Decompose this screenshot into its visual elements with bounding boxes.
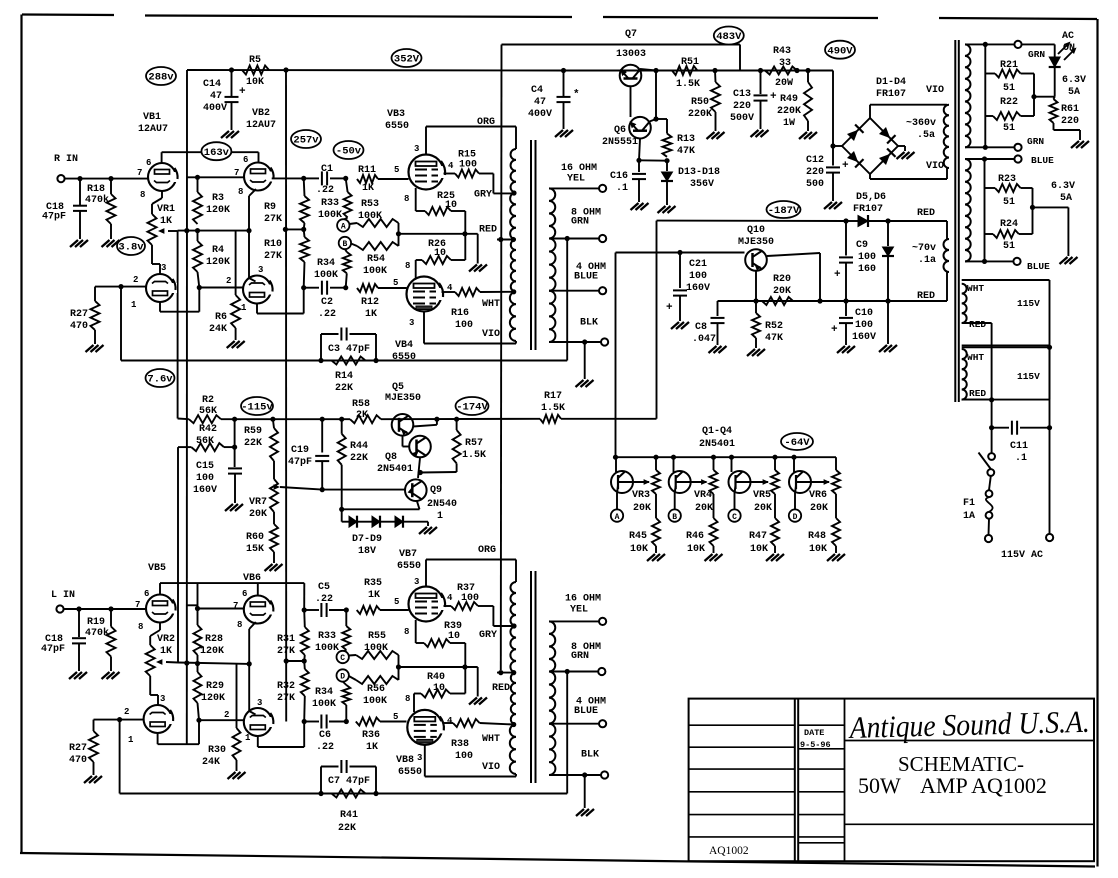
power transformer heater winding 1: [965, 44, 970, 147]
svg-text:6.3V: 6.3V: [1051, 181, 1075, 192]
wire R42 left drop to VR2 wiper line: [177, 447, 179, 662]
svg-text:5A: 5A: [1060, 193, 1072, 204]
wire VR1 wiper line x=177.6 down to -115v rail: [177, 231, 179, 419]
svg-text:100: 100: [455, 320, 473, 331]
svg-text:-115v: -115v: [241, 402, 273, 414]
ground below C10: [837, 346, 845, 353]
svg-text:.1: .1: [1015, 453, 1027, 464]
svg-text:VB6: VB6: [243, 573, 261, 584]
svg-text:C10: C10: [855, 308, 873, 319]
ground on splitter row (L): [477, 667, 479, 697]
node junction mid R31/R32 row: [286, 660, 304, 662]
svg-text:R11: R11: [358, 165, 376, 176]
wire VB8 plate to transformer bottom (L): [424, 745, 426, 777]
svg-text:BLK: BLK: [580, 318, 598, 329]
wire VR2 bottom to VB5 lower triode plate: [149, 676, 151, 695]
svg-text:1: 1: [245, 733, 251, 743]
svg-text:1K: 1K: [362, 183, 374, 194]
svg-text:100: 100: [689, 271, 707, 282]
svg-text:3: 3: [417, 753, 422, 763]
svg-text:27K: 27K: [277, 693, 295, 704]
svg-text:22K: 22K: [350, 453, 368, 464]
wire feedback rail y=793.5: [120, 793, 568, 795]
capacitor C15: [234, 447, 236, 467]
svg-text:1K: 1K: [160, 646, 172, 657]
wire terminal to LED: [1022, 43, 1055, 45]
svg-text:10: 10: [433, 683, 445, 694]
wire VB4 plate to transformer bottom: [423, 312, 425, 344]
wire Q7 base down to Q6: [630, 87, 632, 118]
svg-text:.22: .22: [318, 309, 336, 320]
wire VB2 plate to C1 row: [272, 177, 304, 179]
wire feedback node down from VB5 cathode junction: [119, 720, 121, 794]
ground below BLK tap: [584, 342, 586, 379]
svg-text:R30: R30: [208, 745, 226, 756]
capacitor C10: [845, 301, 847, 316]
capacitor C2: [301, 285, 306, 290]
terminal heater1 bottom: [1014, 144, 1021, 151]
svg-text:GRN: GRN: [571, 651, 589, 662]
svg-text:470k: 470k: [85, 627, 109, 639]
svg-text:VB7: VB7: [399, 549, 417, 560]
svg-text:115V: 115V: [1017, 371, 1040, 382]
svg-text:WHT: WHT: [482, 734, 500, 745]
title block vertical divider 2: [844, 699, 846, 862]
capacitor C11 line filter: [989, 425, 994, 430]
wire R5 left corner vertical x=187 (to lower channels): [186, 70, 188, 744]
wire feedback takeoff from 8 ohm tap: [566, 239, 568, 361]
svg-text:51: 51: [1003, 83, 1015, 94]
wire 8 ohm tap (L): [549, 671, 598, 673]
resistor R26: [415, 260, 417, 278]
svg-text:R33: R33: [318, 631, 336, 642]
svg-text:~70v: ~70v: [912, 243, 936, 254]
svg-text:160V: 160V: [852, 332, 876, 343]
terminal 8 ohm GRN: [599, 235, 606, 242]
wire Q10 emitter down: [755, 272, 757, 302]
ground below C16: [631, 203, 639, 210]
potentiometer VR4 20K: [713, 457, 715, 470]
capacitor C16: [638, 160, 640, 172]
svg-text:115V AC: 115V AC: [1001, 550, 1043, 561]
wire bridge top to HV winding: [869, 105, 871, 118]
node GRY tap junction: [511, 190, 516, 195]
node D circle (bias link): [794, 493, 796, 509]
svg-text:R20: R20: [773, 274, 791, 285]
resistor R48 10K: [835, 494, 837, 518]
svg-text:R16: R16: [451, 308, 469, 319]
svg-text:1: 1: [128, 735, 134, 745]
svg-text:8: 8: [405, 694, 410, 704]
resistor R52: [755, 301, 757, 313]
capacitor C13: [740, 70, 761, 72]
terminal 4 ohm BLUE: [599, 287, 606, 294]
wire -187 rail to 70v winding top: [888, 220, 947, 222]
svg-text:16 OHM: 16 OHM: [561, 163, 597, 174]
ground below R46: [705, 554, 713, 561]
svg-text:RED: RED: [479, 225, 497, 236]
svg-text:AC: AC: [1062, 31, 1074, 42]
svg-text:VR5: VR5: [753, 490, 771, 501]
terminal 16 ohm YEL (L): [599, 618, 606, 625]
diode D6: [887, 221, 889, 246]
resistor R58: [350, 415, 381, 423]
svg-text:4: 4: [448, 161, 454, 171]
node junction R3/R4 row: [178, 230, 249, 232]
title block middle column rows: [798, 724, 844, 726]
node junction R51 right: [712, 68, 717, 73]
potentiometer VR7 20K: [270, 479, 278, 512]
svg-text:C9: C9: [856, 240, 868, 251]
power switch: [991, 428, 993, 453]
svg-text:115V: 115V: [1017, 298, 1040, 309]
resistor R55: [349, 654, 356, 657]
potentiometer VR5 20K: [774, 457, 776, 470]
svg-text:VR4: VR4: [694, 490, 712, 501]
svg-text:.22: .22: [315, 594, 333, 605]
wire R55/R56 junction vertical: [398, 655, 400, 680]
node A circle (R channel): [344, 217, 348, 219]
border frame top: [22, 13, 114, 16]
svg-text:8: 8: [140, 190, 145, 200]
svg-text:R60: R60: [246, 532, 264, 543]
svg-text:6: 6: [146, 158, 151, 168]
svg-text:GRN: GRN: [1028, 49, 1045, 60]
svg-text:47K: 47K: [677, 146, 695, 157]
svg-text:5A: 5A: [1068, 87, 1080, 98]
capacitor C8: [717, 301, 719, 316]
svg-text:51: 51: [1003, 123, 1015, 134]
svg-text:500V: 500V: [730, 113, 754, 124]
terminal 16 ohm YEL: [599, 185, 606, 192]
node junction R5 left: [229, 67, 234, 72]
svg-text:Q5: Q5: [392, 382, 404, 393]
resistor R30: [236, 664, 238, 728]
svg-text:C13: C13: [733, 89, 751, 100]
resistor R19: [110, 609, 112, 627]
svg-text:100K: 100K: [318, 210, 342, 221]
node -50v voltage callout: [334, 141, 364, 159]
wire R53/R54 junction vertical: [398, 223, 400, 246]
svg-text:8: 8: [404, 194, 409, 204]
svg-text:R58: R58: [352, 399, 370, 410]
svg-text:R38: R38: [451, 739, 469, 750]
capacitor C18 input: [79, 179, 81, 205]
svg-text:BLUE: BLUE: [1031, 155, 1054, 166]
svg-text:13003: 13003: [616, 49, 646, 60]
ground below R52: [747, 349, 755, 356]
svg-text:YEL: YEL: [570, 605, 588, 616]
wire VR1 bottom to VB1 lower triode plate: [151, 245, 153, 264]
resistor R34: [345, 249, 347, 252]
svg-text:R36: R36: [362, 730, 380, 741]
resistor R37: [444, 605, 452, 607]
svg-text:C5: C5: [318, 582, 330, 593]
wire 70v winding bottom to y=301: [946, 272, 948, 301]
svg-text:8: 8: [238, 187, 243, 197]
wire 352V rail y=70 right part: [564, 70, 834, 72]
svg-text:R56: R56: [367, 684, 385, 695]
ground below C8: [709, 346, 717, 353]
svg-text:R32: R32: [277, 681, 295, 692]
svg-text:C3 47pF: C3 47pF: [328, 344, 370, 355]
resistor R42: [178, 446, 191, 448]
power transformer 115V primary 2 winding: [962, 349, 967, 400]
svg-text:4: 4: [447, 593, 453, 603]
node junction R5 right: [283, 67, 288, 72]
node 7.6v voltage callout: [146, 369, 175, 387]
ground at bridge right: [898, 145, 905, 147]
svg-text:C15: C15: [196, 461, 214, 472]
wire VB2 lower grid row: [199, 287, 243, 289]
svg-text:C19: C19: [291, 445, 309, 456]
wire R40 right to junction (L): [450, 693, 465, 695]
transistor Q4: [793, 457, 795, 472]
svg-text:400V: 400V: [203, 103, 227, 114]
svg-text:BLK: BLK: [581, 750, 599, 761]
wire -115v rail continues: [221, 418, 350, 420]
node C circle (bias link): [734, 493, 736, 509]
svg-text:*: *: [573, 89, 580, 101]
resistor R13: [663, 134, 672, 157]
svg-text:257v: 257v: [293, 135, 319, 147]
svg-text:AMP AQ1002: AMP AQ1002: [920, 773, 1047, 798]
transistor Q3: [731, 457, 733, 472]
svg-text:VB5: VB5: [148, 563, 166, 574]
transformer T2 primary winding: [511, 582, 517, 626]
wire junction to ground: [1033, 206, 1069, 208]
wire -115v rail y=418.5: [178, 418, 189, 421]
wire VB5 lower cathode: [157, 733, 159, 744]
wire R23/R24 right junction: [1032, 188, 1034, 234]
tube VB1 lower triode: [146, 274, 174, 302]
svg-text:1W: 1W: [783, 118, 795, 129]
svg-text:.5a: .5a: [917, 130, 935, 141]
wire VB6 lower grid row: [199, 719, 244, 721]
wire VB6 grid stub from x=186.8: [187, 604, 198, 606]
line under company script: [845, 740, 1095, 742]
svg-text:352V: 352V: [394, 54, 420, 66]
svg-text:RED: RED: [969, 388, 986, 399]
resistor R32: [303, 661, 306, 669]
svg-text:MJE350: MJE350: [385, 393, 421, 404]
wire LED to R61 junction: [1054, 67, 1056, 97]
svg-text:51: 51: [1003, 197, 1015, 208]
transformer T2 core: [530, 571, 532, 783]
resistor R36: [356, 718, 380, 726]
svg-text:20K: 20K: [695, 503, 713, 514]
node junction mid R9/R10 row: [285, 228, 303, 230]
svg-text:R49: R49: [780, 94, 798, 105]
node 490V voltage callout: [825, 41, 855, 59]
svg-text:5: 5: [394, 165, 399, 175]
svg-text:3: 3: [414, 144, 419, 154]
svg-text:220: 220: [1061, 116, 1079, 127]
wire RED center tap stub: [497, 239, 516, 241]
svg-text:R55: R55: [368, 631, 386, 642]
transformer T2 secondary winding: [549, 621, 555, 671]
svg-text:R47: R47: [749, 531, 767, 542]
svg-text:163v: 163v: [204, 147, 230, 159]
resistor R20: [762, 297, 793, 305]
svg-text:47pF: 47pF: [41, 644, 65, 655]
svg-text:220K: 220K: [777, 106, 801, 117]
potentiometer VR6 20K: [835, 457, 837, 470]
wire R17 to -187V corner: [561, 418, 657, 420]
svg-text:3: 3: [160, 694, 165, 704]
wire 8 ohm tap: [549, 238, 599, 240]
svg-text:1: 1: [131, 300, 137, 310]
resistor R31: [303, 610, 306, 627]
wire VB6 lower plate feed from cathode junction: [248, 664, 250, 711]
svg-text:-50v: -50v: [336, 146, 362, 158]
ground below BLK tap (L): [584, 775, 586, 808]
power transformer 115V primary 2 box: [962, 346, 1050, 348]
svg-text:RED: RED: [492, 683, 510, 694]
ground below C15: [225, 504, 233, 511]
svg-text:D13-D18: D13-D18: [678, 167, 720, 178]
svg-text:GRY: GRY: [474, 190, 492, 201]
svg-text:2N5401: 2N5401: [699, 439, 735, 450]
svg-text:A: A: [615, 513, 620, 522]
ground below R18: [102, 240, 110, 247]
svg-text:BLUE: BLUE: [1027, 261, 1050, 272]
svg-text:R24: R24: [1000, 219, 1018, 230]
wire R39 right down to splitter row (L): [450, 642, 465, 644]
ground below R30: [228, 772, 236, 779]
svg-text:2N540: 2N540: [427, 499, 457, 510]
svg-text:+: +: [666, 302, 673, 314]
resistor R47 10K: [774, 494, 776, 518]
svg-text:5: 5: [393, 712, 398, 722]
resistor R43 33 20W: [765, 67, 797, 75]
svg-text:+: +: [239, 86, 246, 98]
wire VB5 lower grid row: [94, 719, 144, 721]
svg-text:51: 51: [1003, 241, 1015, 252]
border frame right: [1096, 19, 1098, 867]
ground below R47: [766, 554, 774, 561]
svg-text:Q8: Q8: [385, 452, 397, 463]
svg-text:+: +: [842, 160, 849, 172]
svg-text:3: 3: [258, 265, 263, 275]
svg-text:3.8v: 3.8v: [118, 242, 144, 254]
svg-text:56K: 56K: [199, 406, 217, 417]
svg-text:6: 6: [144, 589, 149, 599]
wire -174V rail segment: [381, 418, 540, 420]
svg-text:~360v: ~360v: [906, 118, 936, 129]
wire heater1 top lead: [965, 43, 1015, 45]
resistor R33: [346, 178, 348, 192]
tube VB2 lower triode: [243, 276, 271, 304]
transformer T1 core: [530, 140, 532, 350]
svg-text:120K: 120K: [200, 646, 224, 657]
svg-text:R59: R59: [244, 426, 262, 437]
svg-text:7: 7: [233, 601, 238, 611]
svg-text:6550: 6550: [385, 121, 409, 132]
svg-text:100: 100: [855, 320, 873, 331]
wire VR2 wiper row to R28/R29 junction: [178, 663, 249, 664]
svg-text:10: 10: [448, 631, 460, 642]
svg-text:100K: 100K: [315, 643, 339, 654]
svg-text:47: 47: [210, 91, 222, 102]
transistor Q2: [673, 457, 675, 472]
svg-text:R12: R12: [361, 297, 379, 308]
svg-text:.047: .047: [692, 334, 716, 345]
ground below R61: [1071, 141, 1079, 148]
resistor R45 10K: [655, 494, 657, 518]
svg-text:8: 8: [404, 627, 409, 637]
svg-text:56K: 56K: [196, 436, 214, 447]
tube VB5 lower triode: [144, 705, 172, 733]
svg-text:2: 2: [226, 276, 231, 286]
svg-text:120K: 120K: [201, 693, 225, 704]
resistor R56: [349, 676, 356, 680]
svg-text:+: +: [834, 269, 841, 281]
svg-text:1: 1: [437, 511, 443, 522]
svg-text:Q6: Q6: [614, 125, 626, 136]
capacitor C4: [561, 68, 566, 73]
resistor R28: [197, 609, 199, 626]
svg-text:B: B: [342, 240, 347, 249]
svg-text:9-5-96: 9-5-96: [800, 740, 831, 750]
wire R12 to VB4 grid: [378, 287, 407, 289]
wire Q4 emitter arrow to VR6: [796, 481, 829, 483]
svg-text:470: 470: [69, 755, 87, 766]
ground on splitter row: [477, 234, 479, 264]
wire primary1 RED lead: [962, 322, 992, 324]
ground heater2 divider: [1060, 257, 1068, 264]
svg-text:VB1: VB1: [143, 112, 161, 123]
node -174V voltage callout: [456, 397, 489, 415]
wire heater2 bottom lead: [965, 260, 1014, 262]
wire VB7 plate to ORG top of transformer (L): [425, 560, 427, 587]
svg-text:R43: R43: [773, 46, 791, 57]
tube VB6 lower triode: [244, 708, 272, 736]
svg-text:47pF: 47pF: [288, 457, 312, 468]
transformer T1 primary winding: [511, 149, 516, 193]
svg-text:-187V: -187V: [768, 205, 800, 217]
wire VB6 grid row: [198, 608, 244, 610]
svg-text:C4: C4: [531, 85, 543, 96]
svg-text:160: 160: [858, 264, 876, 275]
svg-text:2N5551: 2N5551: [602, 137, 638, 148]
svg-text:47K: 47K: [765, 333, 783, 344]
wire R61 to ground: [1053, 123, 1055, 130]
resistor R33 (L channel): [345, 610, 347, 626]
terminal 8 ohm GRN (L): [598, 668, 605, 675]
ground below R45: [647, 554, 655, 561]
svg-text:20K: 20K: [249, 509, 267, 520]
wire BLK tap: [549, 341, 601, 343]
terminal AC plug left: [985, 535, 992, 542]
svg-text:160V: 160V: [686, 283, 710, 294]
svg-text:VR7: VR7: [249, 497, 267, 508]
svg-text:.1a: .1a: [918, 255, 936, 266]
svg-text:100: 100: [461, 593, 479, 604]
svg-text:483V: 483V: [716, 31, 742, 43]
ground below D13-D18: [658, 206, 666, 213]
resistor R3: [197, 177, 199, 192]
terminal AC plug right: [1046, 534, 1053, 541]
node 288v voltage callout: [146, 67, 176, 85]
node A circle (bias link): [616, 493, 618, 509]
svg-text:C14: C14: [203, 79, 221, 90]
resistor R41: [332, 790, 366, 798]
capacitor C18 (L channel): [78, 609, 80, 637]
title block outer rectangle: [689, 699, 1094, 862]
resistor R34 (L channel): [343, 682, 347, 686]
svg-text:RED: RED: [969, 319, 986, 330]
